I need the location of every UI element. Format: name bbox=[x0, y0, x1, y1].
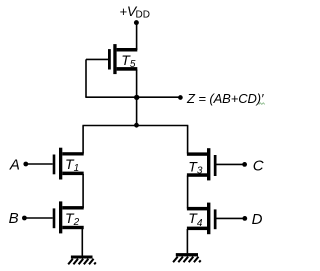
transistor T2 bbox=[53, 201, 84, 233]
node Z dot bbox=[178, 95, 183, 100]
wire VDD to T5 drain bbox=[136, 23, 138, 50]
transistor T3 bbox=[187, 148, 217, 180]
transistor T1 bbox=[53, 148, 84, 180]
wire T4 source to ground bbox=[186, 229, 188, 253]
wire T5 gate lead bbox=[86, 58, 108, 60]
node A dot bbox=[23, 162, 28, 167]
node B dot bbox=[22, 216, 27, 221]
node VDD dot bbox=[134, 20, 139, 25]
ground right bbox=[173, 253, 201, 262]
wire T5 source down through nodes bbox=[136, 70, 138, 126]
svg-text:Z = (AB+CD)′: Z = (AB+CD)′ bbox=[186, 91, 264, 106]
transistor T4 bbox=[187, 203, 217, 235]
wire D lead bbox=[217, 217, 245, 219]
node D dot bbox=[242, 216, 247, 221]
transistor T5 bbox=[108, 44, 137, 74]
svg-text:A: A bbox=[9, 156, 20, 173]
wire B lead bbox=[24, 217, 52, 219]
node output junction bbox=[134, 95, 139, 100]
wire right branch top bbox=[187, 126, 189, 154]
wire output row bbox=[85, 96, 180, 98]
svg-text:B: B bbox=[9, 210, 19, 227]
wire T1 source to T2 drain bbox=[82, 174, 84, 208]
wire T3 source to T4 drain bbox=[187, 176, 189, 209]
svg-text:C: C bbox=[253, 158, 264, 175]
wire T2 source to ground bbox=[81, 229, 83, 256]
node branch junction bbox=[134, 123, 139, 128]
svg-text:D: D bbox=[252, 211, 263, 228]
node C dot bbox=[242, 162, 247, 167]
ground left bbox=[68, 256, 96, 265]
wire A lead bbox=[26, 163, 53, 165]
spellcheck squiggle bbox=[259, 103, 265, 105]
wire T5 gate feedback vertical bbox=[85, 59, 87, 97]
wire left branch top bbox=[82, 126, 84, 154]
wire C lead bbox=[217, 163, 245, 165]
wire branch row bbox=[82, 125, 188, 127]
